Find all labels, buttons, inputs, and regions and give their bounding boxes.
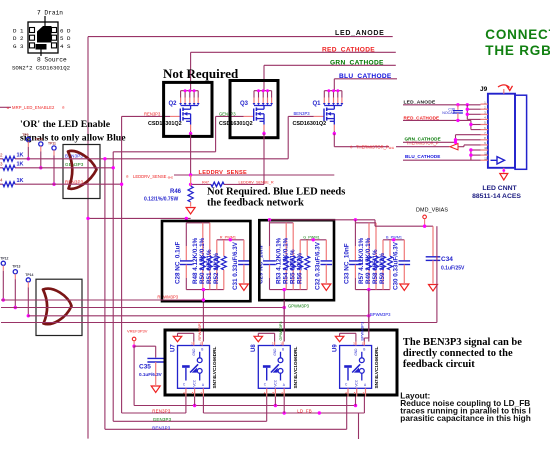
wire thermistor arrow to pin9 [459,146,465,148]
package pin3 square [30,43,35,48]
svg-text:0.1uF/25V: 0.1uF/25V [441,266,465,272]
svg-text:TP14: TP14 [25,273,33,277]
resistor 1K #3 [0,183,3,185]
package outline [28,22,58,53]
OR gate 2 hand-drawn [43,289,72,325]
wire TP9 to row1 [27,147,29,159]
svg-text:U9: U9 [332,344,338,352]
svg-text:THERMISTOR_P: THERMISTOR_P [356,145,389,150]
wire Q1 source to thermistor [334,146,389,148]
svg-text:Q2: Q2 [169,101,178,107]
svg-text:1K: 1K [17,162,24,168]
connector J9 polarity chevron [491,157,505,164]
svg-text:BPWM3P3: BPWM3P3 [360,322,364,341]
svg-text:GND: GND [273,348,277,356]
wire REN3P3 up x=121.6 [121,116,123,413]
svg-text:R47: R47 [202,180,209,184]
svg-text:Q1: Q1 [313,101,322,107]
wire TP10 to row2 [40,152,42,168]
pin DMD_VBIAS [423,215,427,219]
ground arrow below R46 [186,208,195,215]
wire MRP_LED_ENABLE2 stub [0,106,11,108]
wire DMD vertical right [436,226,438,322]
svg-text:Q3: Q3 [240,101,249,107]
wire U9.A down [363,397,365,414]
svg-text:D 2: D 2 [13,35,24,42]
svg-text:U7: U7 [170,344,176,352]
svg-text:GEN3P3: GEN3P3 [65,162,84,167]
package pad (drain) blob [37,26,52,43]
svg-text:CONNECT: CONNECT [485,27,550,42]
svg-text:6 D: 6 D [60,28,71,35]
wire VREF down [133,346,135,405]
svg-text:LD_FB: LD_FB [297,408,312,413]
svg-text:8 Source: 8 Source [37,57,67,64]
svg-text:C32 0.33uF/6.3V: C32 0.33uF/6.3V [315,241,322,290]
wire row1 BEN3P3 [15,158,288,160]
wire row3 REN3P3 [15,183,122,185]
wire bus1 [1,299,203,301]
svg-text:the feedback network: the feedback network [207,198,304,209]
svg-text:VREF3P3V: VREF3P3V [127,328,148,333]
ground arrow below J9 [500,174,508,181]
package top lead [44,16,46,29]
svg-text:CSD16301Q2: CSD16301Q2 [219,121,253,127]
ground arrow below C35 [151,386,160,393]
svg-text:BLU_CATHODE: BLU_CATHODE [405,154,440,159]
svg-text:TP12: TP12 [0,256,8,260]
wire row2 GEN3P3 [15,167,113,169]
ground arrow below C34 [429,285,438,292]
svg-text:'OR' the LED Enable: 'OR' the LED Enable [20,119,111,130]
svg-text:VCC: VCC [355,379,359,386]
svg-text:GND: GND [192,348,196,356]
package source pad [36,44,47,50]
svg-text:B: B [282,348,284,352]
capacitor C36 NOCAP [457,105,459,110]
svg-text:R56 10/1%: R56 10/1% [296,252,303,284]
svg-text:Not Required. Blue LED needs: Not Required. Blue LED needs [207,187,345,198]
svg-text:BEN3P3: BEN3P3 [152,425,170,430]
wire BEN3P3 down x=104.9 [104,159,106,430]
analog switch U8 SN74LVC1G66DRL [258,346,290,389]
svg-text:R55 665/1%: R55 665/1% [289,249,296,284]
wire U7.VCC to VREF [194,397,196,406]
svg-text:C31 0.33uF/6.3V: C31 0.33uF/6.3V [232,241,239,290]
connector J9 body [488,94,515,168]
svg-text:LED_ANODE: LED_ANODE [335,30,384,37]
svg-text:THE RGB: THE RGB [485,43,550,58]
package pin1 square [30,28,35,33]
RC network group A (red channel) [186,222,210,224]
OR gate 1 hand-drawn [68,151,97,189]
capacitor C34 [432,226,434,256]
wire U9.VCC to VREF [355,397,357,406]
wire anode fan [466,105,468,120]
svg-text:0.1uF/6.3V: 0.1uF/6.3V [139,372,163,377]
J9 bottom pin stub [503,168,505,173]
RC network group C (blue channel) [355,222,376,224]
svg-text:SN74LVC1G66DRL: SN74LVC1G66DRL [212,347,217,389]
svg-text:D 1: D 1 [13,28,24,35]
svg-text:RPWM3P3: RPWM3P3 [198,322,202,341]
wire sense rail y=218.4 [88,217,191,219]
svg-text:R49 2.15K/0.1%: R49 2.15K/0.1% [365,237,372,284]
svg-text:SN74LVC1G66DRL: SN74LVC1G66DRL [293,347,298,389]
svg-text:4 S: 4 S [60,43,71,50]
svg-text:®: ® [350,145,353,149]
wire RED_CATHODE vertical into Q2 drain [190,52,192,90]
svg-text:Not Required: Not Required [163,66,239,81]
wire Q1 source down [333,134,335,147]
svg-text:LED CNNT: LED CNNT [482,185,517,192]
connector J9 housing [515,95,527,169]
svg-text:CSD16301Q2: CSD16301Q2 [293,121,327,127]
package pin6 square [52,28,57,33]
wire RED_CATHODE horizontal [191,51,396,53]
transistor Q2 [181,90,199,92]
wire U8.A down [283,397,285,414]
svg-text:R46: R46 [170,189,182,195]
svg-text:R54 2.15K/0.1%: R54 2.15K/0.1% [282,237,289,284]
analog switch U7 SN74LVC1G66DRL [178,346,210,389]
pin VREF3P3V [132,337,136,341]
svg-text:BEN3P3: BEN3P3 [294,111,311,116]
wire C30 down to U9.B jog [368,290,370,338]
wire GEN3P3 to Q3 gate [216,115,244,117]
wire U8.VCC to VREF [274,397,276,406]
wire bus3 [28,315,369,317]
svg-text:C35: C35 [139,364,151,371]
svg-text:R53 4.12K/0.1%: R53 4.12K/0.1% [275,237,282,284]
svg-text:7 Drain: 7 Drain [37,10,63,17]
wire LD_FB stub down [358,413,360,439]
svg-text:VCC: VCC [273,379,277,386]
wire VREF to C35 [134,345,156,347]
wire LED_ANODE to J9 [403,104,481,106]
wire U8.C to GEN3P3 [266,397,268,422]
wire GRN_CATHODE to J9 [403,141,456,143]
svg-text:1K: 1K [17,178,24,184]
switch box (bold) [165,330,397,395]
svg-text:R_PWM1: R_PWM1 [220,236,236,240]
svg-text:GND: GND [354,348,358,356]
svg-text:®: ® [62,106,65,110]
OR-gate box 2 [36,279,82,335]
svg-text:R57 4.12K/0.1%: R57 4.12K/0.1% [358,237,365,284]
wire U9.C to BEN3P3 [346,397,348,430]
wire BEN3P3 elbow to Q1 gate [287,116,289,158]
package bottom lead [40,50,42,57]
svg-text:SN74LVC1G66DRL: SN74LVC1G66DRL [374,347,379,389]
svg-text:BPWM3P3: BPWM3P3 [370,312,391,317]
svg-text:directly connected to the: directly connected to the [403,348,513,359]
svg-text:R48 4.12K/0.1%: R48 4.12K/0.1% [192,237,199,284]
wire RED_CATHODE to J9 [403,119,471,121]
wire BLU_CATHODE horizontal [334,78,397,80]
svg-text:J9: J9 [480,86,488,93]
RC network group B (green channel) [270,222,294,224]
svg-text:««: «« [168,175,174,181]
capacitor C35 [147,357,164,359]
svg-text:B: B [363,348,365,352]
not-required box around Q3 [230,81,278,138]
svg-text:TP11: TP11 [48,141,56,145]
wire thermistor to arrow [396,146,450,148]
wire TP11 to row3 [53,156,55,185]
wire bus2 [1,307,284,309]
svg-text:GPWM3P3: GPWM3P3 [288,304,310,309]
package pin4 square [52,43,57,48]
svg-text:RPWM3P3: RPWM3P3 [157,295,178,300]
wire Q2 source down [190,134,192,186]
transistor Q3 [254,90,272,92]
wire C32 down to U8.B [283,300,285,341]
feedback box A [162,221,250,301]
wire GRN_CATHODE vertical into Q3 drain [263,65,265,90]
svg-text:GEN3P3: GEN3P3 [153,417,172,422]
wire bus4 [1,322,437,324]
not-required box around Q2 [164,82,212,136]
svg-text:LEDDRV_SENSE: LEDDRV_SENSE [133,174,167,179]
svg-text:LEDDRV_SENSE: LEDDRV_SENSE [199,170,248,176]
wire BLU_CATHODE to J9 [403,159,481,161]
svg-text:B: B [201,348,203,352]
resistor R46 [190,175,192,186]
svg-text:TP13: TP13 [12,265,20,269]
svg-text:U8: U8 [251,344,257,352]
feedback box B [259,220,334,300]
svg-text:LEDDRV_SENSE_R: LEDDRV_SENSE_R [239,181,274,185]
svg-text:5 D: 5 D [60,35,71,42]
wire LEDDRV_SENSE [174,174,334,176]
svg-text:G 3: G 3 [13,43,24,50]
connector J9 pins [481,103,488,105]
wire U7.A LD_FB [202,397,204,414]
svg-text:RED_CATHODE: RED_CATHODE [404,115,440,120]
wire GEN3P3 up jog [112,152,114,422]
svg-text:R59 10/1%: R59 10/1% [379,252,386,284]
svg-text:TP10: TP10 [35,137,43,141]
resistor 1K #1 [0,158,3,160]
svg-text:REN3P3: REN3P3 [144,112,161,117]
svg-text:MRP_LED_ENABLE2: MRP_LED_ENABLE2 [12,105,55,110]
svg-text:REN3P3: REN3P3 [152,409,171,414]
J9 top pin stub [503,89,505,94]
svg-text:R51 665/1%: R51 665/1% [206,249,213,284]
transistor Q1 [324,90,342,92]
svg-text:«: « [7,105,10,111]
package pin5 square [52,35,57,40]
wire REN3P3 to Q2 gate [122,115,170,117]
svg-text:C30 0.33uF/6.3V: C30 0.33uF/6.3V [393,241,400,290]
red arrow top of J9 [498,85,513,91]
svg-text:parasitic capacitance in this: parasitic capacitance in this high [400,413,531,423]
svg-text:1K: 1K [17,153,24,159]
svg-text:R52 10/1%: R52 10/1% [213,252,220,284]
svg-text:88511-14 ACES: 88511-14 ACES [472,193,521,200]
off-page arrow thermistor [450,144,458,150]
OR-gate box 1 [63,145,100,199]
wire step to DMD rail [374,220,376,226]
svg-text:THERMISTOR_P: THERMISTOR_P [406,141,439,146]
wire BLU_CATHODE vertical into Q1 drain [333,79,335,91]
svg-text:GPWM3P3: GPWM3P3 [279,322,283,341]
svg-text:The BEN3P3 signal can be: The BEN3P3 signal can be [403,337,522,348]
svg-text:G_PWM1: G_PWM1 [303,236,319,240]
svg-text:0.12/1%/0.75W: 0.12/1%/0.75W [144,197,178,203]
svg-text:NOCAP: NOCAP [442,111,455,115]
wire U7.C to REN3P3 [185,397,187,414]
analog switch U9 SN74LVC1G66DRL [340,346,372,389]
svg-text:««: «« [389,145,395,151]
wire LED_ANODE vertical x=88 [87,37,89,439]
wire GRN_CATHODE horizontal [264,64,396,66]
svg-text:C34: C34 [441,256,453,263]
svg-text:SON2*2 CSD16301Q2: SON2*2 CSD16301Q2 [12,65,71,72]
svg-text:GEN3P3: GEN3P3 [219,112,236,117]
svg-text:C28 NC_0.1uF: C28 NC_0.1uF [175,242,182,284]
svg-text:R50 2.15K/0.1%: R50 2.15K/0.1% [199,237,206,284]
wire Q3 source down [263,134,265,185]
svg-text:VCC: VCC [193,379,197,386]
svg-text:R58 665/1%: R58 665/1% [372,249,379,284]
package pin2 square [30,35,35,40]
svg-text:®: ® [126,175,129,179]
wire LED_ANODE horizontal [88,36,393,38]
svg-text:TP9: TP9 [22,133,28,137]
resistor 1K #2 [0,167,3,169]
wire sense-R row [191,183,211,185]
svg-text:DMD_VBIAS: DMD_VBIAS [416,207,448,213]
svg-text:C33 NC_10nF: C33 NC_10nF [344,243,351,284]
wire top rail B-C [270,219,376,221]
svg-text:feedback circuit: feedback circuit [403,359,475,370]
